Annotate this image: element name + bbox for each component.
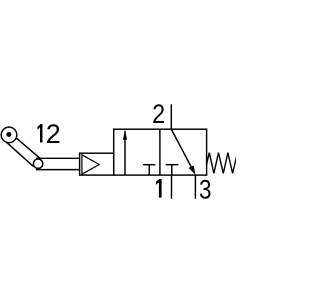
pilot box [80,153,114,175]
port 1 wire [171,175,173,199]
blocked port T right square: crossbar [166,164,179,166]
wire lever arm upper line [13,135,40,158]
divider between squares [159,129,161,175]
wire plunger rod top line [36,157,80,159]
svg-text:3: 3 [199,174,212,204]
diagonal arrow head [189,165,196,175]
svg-text:2: 2 [46,119,61,149]
label 12: digit 1 (custom glyph) [38,124,43,143]
pilot triangle [82,155,99,174]
wire plunger rod bottom line [36,169,80,171]
up-arrow head [123,130,127,140]
blocked port T right square: stem [171,165,173,175]
svg-text:2: 2 [152,99,165,129]
lever dot [6,132,11,137]
blocked port T left square: stem [148,165,150,175]
pivot circle (small) [33,159,42,168]
diagonal flow line 2->3 [171,129,192,169]
up-arrow line (left square flow path) [124,131,126,175]
roller circle (lever end) [1,127,17,143]
spring (return) [207,153,237,174]
blocked port T left square: crossbar [143,164,155,166]
label port 1 (custom glyph) [156,179,162,198]
port 3 wire [194,175,196,199]
valve body outline [114,129,207,175]
wire lever arm lower line [5,141,34,167]
port 2 wire [170,104,172,129]
